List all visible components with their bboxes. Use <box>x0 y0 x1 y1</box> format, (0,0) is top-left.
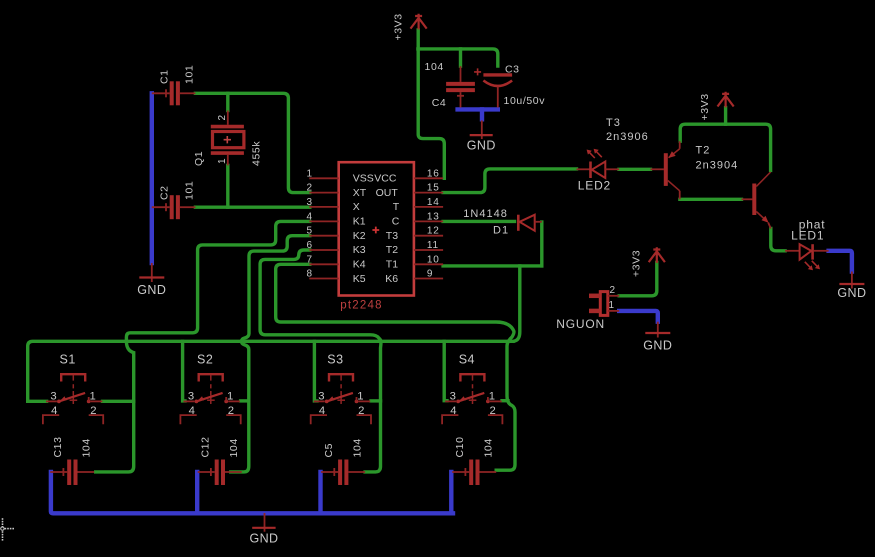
S4 pin number 4 <box>450 405 456 417</box>
value 455k of Q1 <box>251 141 263 166</box>
svg-text:LED2: LED2 <box>578 179 611 193</box>
svg-text:2: 2 <box>610 285 616 296</box>
svg-text:3: 3 <box>318 390 324 402</box>
LED LED1 triangle <box>800 244 812 259</box>
C1 right lead <box>180 92 196 94</box>
svg-text:K5: K5 <box>353 273 366 285</box>
ground GND5 under LED1 <box>837 272 866 301</box>
pin 10 stub <box>414 263 443 265</box>
S4 pin number 2 <box>490 405 496 417</box>
svg-text:3: 3 <box>50 390 56 402</box>
label +3V3 above T2 <box>699 93 711 120</box>
pin name VCC <box>374 173 397 185</box>
switch S2 symbol <box>180 374 240 424</box>
svg-text:1N4148: 1N4148 <box>463 208 508 220</box>
svg-text:T2: T2 <box>696 145 711 157</box>
wire blue C12 drop to GND bus <box>195 472 199 513</box>
power +3V3 arrow top <box>411 14 427 30</box>
pin number 4 <box>307 211 313 222</box>
value 104 of C5 <box>352 438 364 457</box>
svg-text:104: 104 <box>228 438 240 457</box>
wire S4 pin1 stub to K4 vertical <box>502 399 508 402</box>
C5 right lead <box>348 471 365 473</box>
C13 left lead <box>50 468 67 476</box>
wire net +3V3 rail over T3 T2 <box>680 124 770 170</box>
wire S1 pin1 stub to K1 vertical <box>103 400 134 403</box>
wire net OUT: IC pin15 to LED2 <box>443 169 576 193</box>
label C12 <box>200 436 212 457</box>
S1 pin number 1 <box>90 390 96 402</box>
wire Q1 pin1 drop to X net <box>226 165 229 207</box>
pin name K2 <box>353 230 366 242</box>
wire +3V3 arrow drop to rail <box>724 108 727 125</box>
pin 9 stub <box>414 278 443 280</box>
label C1 <box>159 69 171 84</box>
svg-text:1: 1 <box>489 390 495 402</box>
svg-text:K3: K3 <box>353 244 366 256</box>
wire net K3: IC pin6 to S3 cell <box>260 250 381 472</box>
svg-text:X: X <box>353 201 360 213</box>
Q1 pin number 2 <box>217 114 228 120</box>
pin number 14 <box>427 197 440 208</box>
wire blue GND drop under C4 C3 <box>480 109 484 119</box>
pin number 3 <box>307 197 313 208</box>
value 104 of C13 <box>81 438 93 457</box>
svg-text:2: 2 <box>228 405 234 417</box>
svg-text:C10: C10 <box>454 436 466 457</box>
wire net XT: C1 to IC pin 2 <box>195 93 309 192</box>
label S1 <box>60 353 76 367</box>
svg-text:Q1: Q1 <box>193 151 205 166</box>
connector NGUON body <box>600 292 608 316</box>
S3 pin number 4 <box>319 405 325 417</box>
wire LED2 cathode to T3 base <box>619 168 651 171</box>
T3 emitter lead up <box>679 141 681 149</box>
switch S3 symbol <box>311 374 371 424</box>
wire net K4: IC pin7 to S4 cell <box>276 264 515 470</box>
pin 6 stub <box>309 249 338 251</box>
power +3V3 arrow above NGUON <box>649 247 665 263</box>
Q1 plus mark <box>224 136 231 143</box>
svg-text:10: 10 <box>427 254 440 265</box>
svg-text:4: 4 <box>450 405 456 417</box>
NGUON pin 1 stub <box>589 309 619 314</box>
svg-text:XT: XT <box>353 187 367 199</box>
D1 anode lead <box>535 221 542 223</box>
pin 15 stub <box>414 192 443 194</box>
LED2 emission arrows <box>587 149 602 158</box>
transistor T2 base bar <box>752 184 756 216</box>
svg-text:C1: C1 <box>159 69 171 84</box>
svg-text:12: 12 <box>427 226 440 237</box>
svg-text:10u/50v: 10u/50v <box>504 95 546 107</box>
C4 polarity tick <box>457 95 464 97</box>
label S4 <box>459 353 475 367</box>
pin number 2 <box>307 183 313 194</box>
S2 pin number 4 <box>189 405 195 417</box>
wire blue C10 drop to GND bus <box>449 472 453 513</box>
label LED1 <box>791 229 824 243</box>
wire T2 emitter to LED1 <box>771 229 785 251</box>
svg-text:2: 2 <box>490 405 496 417</box>
C3 bottom lead <box>497 87 499 108</box>
wire +3V3 branch to C4 C3 <box>418 49 498 66</box>
resonator Q1 bottom plate <box>211 151 244 155</box>
S4 pin number 1 <box>489 390 495 402</box>
pin 1 stub <box>309 177 338 179</box>
C2 polarity tick <box>165 203 167 211</box>
pin number 6 <box>307 240 313 251</box>
svg-text:7: 7 <box>307 254 313 265</box>
label C3 <box>505 64 520 76</box>
svg-text:S1: S1 <box>60 353 76 367</box>
label S3 <box>327 353 343 367</box>
pin 16 stub <box>414 177 443 179</box>
T3 collector lead down <box>679 191 681 200</box>
svg-text:LED1: LED1 <box>791 229 824 243</box>
ground GND1 left <box>137 263 166 297</box>
Q1 top pin lead <box>227 111 229 125</box>
ground GND3 bottom <box>250 513 279 546</box>
switch S1 symbol <box>43 374 103 424</box>
wire blue C5 drop to GND bus <box>318 472 322 513</box>
wire net X: C2 and Q1 pin1 to IC pin 3 <box>195 205 309 208</box>
capacitor C12 plates <box>217 460 223 486</box>
svg-text:K1: K1 <box>353 216 366 228</box>
svg-text:GND: GND <box>467 139 496 153</box>
pin name K3 <box>353 244 366 256</box>
wire blue NGUON pin1 to GND <box>619 311 658 322</box>
svg-text:4: 4 <box>319 405 325 417</box>
pin number 15 <box>427 183 440 194</box>
svg-text:2: 2 <box>90 405 96 417</box>
capacitor C1 plates <box>172 81 178 105</box>
svg-text:T3: T3 <box>606 117 621 129</box>
svg-text:C4: C4 <box>432 97 447 109</box>
capacitor C13 plates <box>69 460 75 486</box>
wire S4 left vertical to common bus <box>444 341 447 400</box>
S1 pin number 4 <box>51 405 57 417</box>
svg-text:1: 1 <box>90 390 96 402</box>
C3 plus mark <box>474 68 481 75</box>
svg-text:101: 101 <box>184 181 196 200</box>
pin 3 stub <box>309 206 338 208</box>
S1 pin number 3 <box>50 390 56 402</box>
LED1 anode lead <box>785 250 800 252</box>
svg-text:1: 1 <box>609 300 615 311</box>
label C5 <box>323 443 335 458</box>
wire S3 left vertical to common bus <box>314 341 317 401</box>
value 10u/50v of C3 <box>504 95 546 107</box>
U1 polarity plus mark <box>372 227 379 234</box>
Q1 bottom pin lead <box>227 155 229 166</box>
label D1 <box>493 224 509 236</box>
C1 left lead <box>152 92 170 94</box>
pin 7 stub <box>309 263 338 265</box>
wire T1 net drop from pin10 line to common bus <box>515 266 520 341</box>
svg-text:+3V3: +3V3 <box>631 250 643 277</box>
svg-text:4: 4 <box>51 405 57 417</box>
svg-text:104: 104 <box>352 438 364 457</box>
capacitor C5 plates <box>340 460 346 486</box>
power +3V3 arrow above T2 <box>718 92 734 108</box>
svg-text:16: 16 <box>427 168 440 179</box>
LED LED2 triangle <box>592 162 606 179</box>
LED LED2 cathode bar <box>589 162 592 179</box>
op-amp U1 pt2248 IC box <box>339 162 414 295</box>
svg-text:11: 11 <box>427 240 439 251</box>
C2 left lead <box>152 206 170 208</box>
pin number 7 <box>307 254 313 265</box>
value 2n3904 of T2 <box>696 160 739 172</box>
svg-text:D1: D1 <box>493 224 509 236</box>
svg-text:VCC: VCC <box>374 173 397 185</box>
svg-text:C3: C3 <box>505 64 520 76</box>
C12 left lead <box>198 468 215 476</box>
NGUON pin number 2 <box>610 285 616 296</box>
svg-text:S3: S3 <box>327 353 343 367</box>
pin number 8 <box>307 269 313 280</box>
svg-text:2n3906: 2n3906 <box>606 131 649 143</box>
svg-text:5: 5 <box>307 226 313 237</box>
svg-text:+3V3: +3V3 <box>699 93 711 120</box>
NGUON pin number 1 <box>609 300 615 311</box>
svg-text:14: 14 <box>427 197 440 208</box>
svg-text:OUT: OUT <box>376 187 399 199</box>
svg-text:T3: T3 <box>386 230 398 242</box>
value 104 of C12 <box>228 438 240 457</box>
LED2 right lead <box>605 168 619 170</box>
svg-text:104: 104 <box>425 61 444 73</box>
C10 right lead <box>480 471 497 473</box>
label S2 <box>197 353 213 367</box>
ground GND4 under NGUON <box>643 322 672 353</box>
U1 value label pt2248 <box>340 300 382 312</box>
value 1N4148 of D1 <box>463 208 508 220</box>
transistor T3 collector diagonal <box>668 181 680 191</box>
svg-text:4: 4 <box>189 405 195 417</box>
pin name X <box>353 201 360 213</box>
pin name K6 <box>385 273 398 285</box>
pin name T2 <box>386 244 398 256</box>
svg-text:4: 4 <box>307 211 313 222</box>
wire net K1: IC pin4 to S1 cell <box>96 221 310 472</box>
svg-text:104: 104 <box>81 438 93 457</box>
label C2 <box>159 185 171 200</box>
wire blue bottom GND bus <box>51 472 453 513</box>
C3 curved plate <box>483 81 512 87</box>
pin number 13 <box>427 211 440 222</box>
svg-text:15: 15 <box>427 183 440 194</box>
transistor T3 base bar <box>664 153 668 186</box>
svg-text:K2: K2 <box>353 230 366 242</box>
svg-text:T: T <box>393 201 400 213</box>
svg-text:K6: K6 <box>385 273 398 285</box>
wire S2 left vertical to common bus <box>183 341 185 401</box>
pin number 10 <box>427 254 440 265</box>
svg-text:K4: K4 <box>353 259 366 271</box>
pin 5 stub <box>309 235 338 237</box>
svg-text:101: 101 <box>184 65 196 84</box>
svg-text:VSS: VSS <box>353 173 374 185</box>
C12 right lead <box>225 471 242 473</box>
svg-text:1: 1 <box>357 390 363 402</box>
label C4 <box>432 97 447 109</box>
svg-text:8: 8 <box>307 269 313 280</box>
C2 right lead <box>180 206 196 208</box>
pin name K5 <box>353 273 366 285</box>
label T3 <box>606 117 621 129</box>
wire net C: IC pin13 to D1 cathode <box>443 220 514 223</box>
transistor T3 emitter diagonal with PNP arrow <box>668 149 679 158</box>
wire Q1 pin2 drop from C1 net <box>226 93 229 110</box>
pin name XT <box>353 187 367 199</box>
pin number 5 <box>307 226 313 237</box>
pin name K4 <box>353 259 366 271</box>
value 2n3906 of T3 <box>606 131 649 143</box>
C4 top lead <box>460 66 462 82</box>
value 104 of C10 <box>483 438 495 457</box>
S3 pin number 3 <box>318 390 324 402</box>
pin 11 stub <box>414 249 443 251</box>
transistor T2 base lead <box>742 198 753 200</box>
capacitor C4 plates <box>446 84 475 90</box>
wire net +3V3 NGUON pin2 <box>619 263 657 296</box>
switch S4 symbol <box>442 374 502 424</box>
wire blue GND bar under C4 C3 <box>458 107 498 111</box>
pin 12 stub <box>414 235 443 237</box>
pin number 9 <box>427 269 433 280</box>
wire S2 pin1 stub to K2 vertical <box>241 399 249 402</box>
wire net T1 common bus (horizontal) <box>28 341 513 401</box>
svg-text:GND: GND <box>137 283 166 297</box>
S2 pin number 3 <box>188 390 194 402</box>
svg-text:1: 1 <box>227 390 233 402</box>
transistor T2 collector diagonal <box>756 172 770 187</box>
label C13 <box>52 436 64 457</box>
svg-text:C13: C13 <box>52 436 64 457</box>
S1 pin number 2 <box>90 405 96 417</box>
C10 left lead <box>452 468 469 476</box>
pin name T1 <box>386 259 398 271</box>
pin number 11 <box>427 240 439 251</box>
LED1 cathode lead <box>814 250 829 252</box>
label Q1 <box>193 151 205 166</box>
svg-text:T1: T1 <box>386 259 398 271</box>
resonator Q1 top plate <box>211 125 244 129</box>
svg-text:104: 104 <box>483 438 495 457</box>
pin 14 stub <box>414 206 443 208</box>
svg-text:3: 3 <box>450 390 456 402</box>
pin 4 stub <box>309 220 338 222</box>
wire S1 pin3 stub link <box>28 400 47 403</box>
svg-text:C2: C2 <box>159 185 171 200</box>
svg-text:T2: T2 <box>386 244 398 256</box>
LED2 anode lead <box>577 168 590 170</box>
C4 bottom lead <box>460 92 462 107</box>
S2 pin number 2 <box>228 405 234 417</box>
pin 8 stub <box>309 278 338 280</box>
pin number 1 <box>307 168 313 179</box>
Q1 pin number 1 <box>217 158 228 164</box>
pin name T <box>393 201 400 213</box>
label LED2 <box>578 179 611 193</box>
pin name VSS <box>353 173 374 185</box>
svg-text:1: 1 <box>217 158 228 164</box>
svg-text:C5: C5 <box>323 443 335 458</box>
svg-text:S4: S4 <box>459 353 475 367</box>
LED1 emission arrows <box>805 261 820 271</box>
svg-text:3: 3 <box>307 197 313 208</box>
pin 2 stub <box>309 192 338 194</box>
S3 pin number 1 <box>357 390 363 402</box>
S4 pin number 3 <box>450 390 456 402</box>
svg-text:GND: GND <box>643 339 672 353</box>
svg-text:2: 2 <box>307 183 313 194</box>
svg-text:2: 2 <box>217 114 228 120</box>
pin 13 stub <box>414 220 443 222</box>
value 104 of C4 <box>425 61 444 73</box>
capacitor C10 plates <box>471 460 477 486</box>
wire blue LED1 cathode to GND <box>829 251 852 272</box>
svg-text:1: 1 <box>307 168 313 179</box>
wire T3 collector to T2 base <box>680 198 742 201</box>
S2 pin number 1 <box>227 390 233 402</box>
svg-text:GND: GND <box>250 532 279 546</box>
pin number 12 <box>427 226 440 237</box>
wire S3 pin1 stub to K3 vertical <box>371 399 381 402</box>
label +3V3 top <box>393 13 405 40</box>
wire blue GND net C1 C2 <box>150 93 154 263</box>
svg-text:+3V3: +3V3 <box>393 13 405 40</box>
label +3V3 above NGUON <box>631 250 643 277</box>
svg-text:S2: S2 <box>197 353 213 367</box>
svg-text:GND: GND <box>837 286 866 300</box>
pin name OUT <box>376 187 399 199</box>
svg-text:NGUON: NGUON <box>556 317 605 331</box>
pin name K1 <box>353 216 366 228</box>
NGUON pin 2 stub <box>589 294 619 299</box>
value 101 of C1 <box>184 65 196 84</box>
label C10 <box>454 436 466 457</box>
capacitor C2 plates <box>172 195 178 219</box>
svg-text:2n3904: 2n3904 <box>696 160 739 172</box>
svg-text:C: C <box>392 216 400 228</box>
transistor T2 emitter diagonal with NPN arrow <box>756 212 768 223</box>
label T2 <box>696 145 711 157</box>
LED LED1 cathode bar <box>811 244 814 259</box>
wire D1 anode vertical <box>540 222 543 266</box>
pin number 16 <box>427 168 440 179</box>
diode D1 cathode bar <box>517 215 520 231</box>
capacitor C3 top plate <box>483 73 512 76</box>
pin name C <box>392 216 400 228</box>
svg-text:13: 13 <box>427 211 440 222</box>
C13 right lead <box>78 471 95 473</box>
label phat <box>799 218 826 232</box>
svg-text:9: 9 <box>427 269 433 280</box>
resonator Q1 body box <box>213 132 244 148</box>
wire net +3V3 main: arrow to pin16 elbow <box>418 30 444 178</box>
svg-text:pt2248: pt2248 <box>340 300 382 312</box>
pin name T3 <box>386 230 398 242</box>
value 101 of C2 <box>184 181 196 200</box>
svg-text:3: 3 <box>188 390 194 402</box>
transistor Q T3 base lead <box>651 168 664 170</box>
wire net T1: IC pin10 to D1 anode vertical <box>443 264 542 267</box>
wire net K2: IC pin5 to S2 cell <box>231 236 310 472</box>
T2 emitter lead <box>768 223 771 229</box>
